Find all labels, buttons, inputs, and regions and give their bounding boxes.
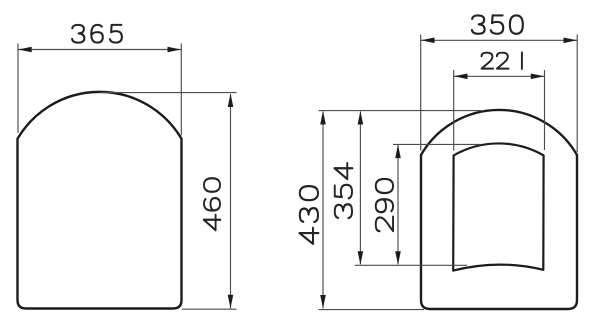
dim 430 label (rotated) (300, 186, 319, 244)
dim 460 top extension line (from dome apex) (100, 92, 237, 94)
dim 221 line (454, 75, 544, 77)
dim 350 right extension line (576, 35, 578, 153)
dim 430 bottom arrow (320, 295, 326, 309)
dim 221 right extension line (544, 70, 546, 150)
extension line y=265.3 (inner bottom level, for 354/290) (355, 264, 467, 266)
dim 354 top arrow (358, 111, 364, 125)
dim 221 left extension line (453, 70, 455, 151)
dim 290 line (397, 145, 399, 264)
dim 365 label (72, 25, 122, 43)
left view outline (lid top view) (18, 92, 182, 309)
dim 221 right arrow (531, 74, 545, 80)
dim 430 top arrow (320, 111, 326, 125)
dim 365 left extension line (17, 44, 19, 134)
dim 460 bottom extension line (182, 308, 237, 310)
dim 460 top arrow (228, 94, 234, 108)
dim 221 label (481, 52, 521, 69)
dim 354 label (rotated) (334, 163, 352, 218)
right view inner outline (seat opening) (453, 143, 543, 270)
dim 221 left arrow (454, 74, 468, 80)
dim 365 line (18, 49, 181, 51)
dim 460 bottom arrow (228, 295, 234, 309)
dim 365 left arrow (18, 47, 32, 53)
extension line y=144.4 (inner apex level, for 290) (393, 143, 481, 145)
dim 460 line (230, 94, 232, 309)
extension line bottom right view (for 430) (319, 309, 424, 311)
dim 290 label (rotated) (376, 179, 393, 231)
dim 365 right extension line (180, 44, 182, 136)
dim 350 left arrow (421, 38, 435, 44)
dim 460 label (rotated) (204, 178, 221, 230)
dim 350 left extension line (420, 35, 422, 151)
dim 290 bottom arrow (395, 251, 401, 265)
extension line y=110.6 (outer apex level, for 430/354) (319, 110, 483, 112)
dim 365 right arrow (168, 47, 182, 53)
dim 350 label (472, 15, 523, 33)
dim 430 line (322, 112, 324, 309)
dim 354 line (359, 112, 361, 265)
dim 350 right arrow (564, 38, 578, 44)
dim 350 line (421, 39, 577, 41)
right view outer outline (seat) (421, 110, 577, 309)
dim 354 bottom arrow (358, 251, 364, 265)
dim 290 top arrow (395, 145, 401, 159)
